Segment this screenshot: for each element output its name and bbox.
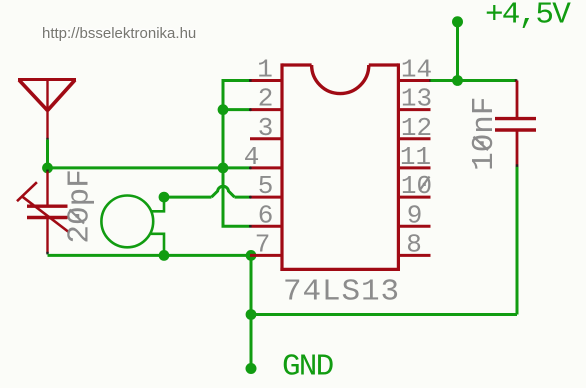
wire bottom rail (trimmer to pin 7) — [48, 254, 252, 257]
node supply junction — [452, 75, 463, 86]
svg-text:10: 10 — [401, 171, 432, 201]
wire down to GND — [250, 315, 253, 369]
contact point antenna-wire — [46, 138, 48, 141]
node net/pin4 — [218, 163, 229, 174]
label 10nF zero slash — [474, 137, 489, 151]
svg-text:8: 8 — [406, 229, 422, 259]
wire net vertical pins 1-2-4-6 — [223, 81, 250, 227]
svg-text:7: 7 — [255, 229, 271, 259]
node earphone bottom — [159, 250, 170, 261]
wire hop over net — [212, 186, 235, 197]
svg-text:11: 11 — [400, 142, 431, 172]
svg-text:GND: GND — [282, 350, 334, 385]
wire pin 14 to supply node — [431, 79, 517, 82]
svg-text:13: 13 — [401, 84, 432, 114]
supply endpoint — [452, 16, 463, 27]
node earphone top — [159, 192, 170, 203]
wire supply vertical — [456, 22, 459, 81]
svg-text:4: 4 — [244, 142, 260, 172]
svg-text:14: 14 — [401, 55, 432, 85]
watermark url text — [42, 25, 196, 42]
pin 11 — [398, 142, 431, 172]
svg-text:74LS13: 74LS13 — [283, 275, 400, 310]
svg-text:12: 12 — [401, 113, 432, 143]
wire to pin 4 — [223, 166, 251, 169]
pin 2 — [249, 84, 282, 114]
svg-text:+4,5V: +4,5V — [485, 0, 571, 33]
pin 8 — [398, 229, 430, 259]
trimmer capacitor C1 — [17, 172, 69, 254]
wire to pin 2 — [223, 108, 251, 111]
contact point trimmer-wire bottom — [46, 252, 48, 255]
wire node A to net vertical (pin 4 row) — [48, 166, 224, 169]
wire earphone to hop — [164, 196, 212, 199]
pin 9 — [398, 200, 430, 230]
svg-text:3: 3 — [258, 113, 274, 143]
wire pin7 down — [250, 255, 253, 314]
pin 12 — [398, 113, 432, 143]
op-amp U1 body 74LS13 — [280, 63, 400, 271]
wire gnd rail up to capacitor — [516, 167, 519, 315]
pin 7 — [250, 229, 282, 259]
pin 3 — [250, 113, 282, 143]
wire hop to pin 5 — [235, 196, 252, 199]
ground endpoint — [246, 363, 257, 374]
svg-text:10nF: 10nF — [467, 96, 502, 170]
svg-text:1: 1 — [257, 55, 273, 85]
svg-text:20pF: 20pF — [63, 169, 98, 243]
pin 5 — [249, 171, 282, 201]
contact point wire-trimmer top — [46, 170, 48, 173]
svg-text:9: 9 — [407, 200, 423, 230]
pin 13 — [398, 84, 432, 114]
capacitor C2 10nF — [495, 81, 536, 167]
wire antenna to node A — [46, 140, 49, 168]
node pin 7 junction — [246, 250, 257, 261]
node A junction (antenna / trimmer / wire) — [42, 163, 53, 174]
node net/pin2 — [218, 104, 229, 115]
svg-text:6: 6 — [258, 200, 274, 230]
contact point cap bottom — [516, 164, 518, 167]
svg-text:5: 5 — [258, 171, 274, 201]
pin 1 — [249, 55, 282, 85]
label 20pF zero slash — [70, 210, 85, 224]
contact point cap top — [515, 79, 518, 81]
pin 4 — [244, 142, 282, 172]
node gnd rail junction — [246, 309, 257, 320]
pin 10 — [398, 171, 432, 201]
pin 6 — [249, 200, 282, 230]
wire gnd rail horizontal — [251, 313, 517, 316]
pin 14 — [398, 55, 432, 85]
antenna E1 — [18, 80, 76, 140]
earphone M1 — [101, 196, 164, 256]
svg-text:2: 2 — [258, 84, 274, 114]
